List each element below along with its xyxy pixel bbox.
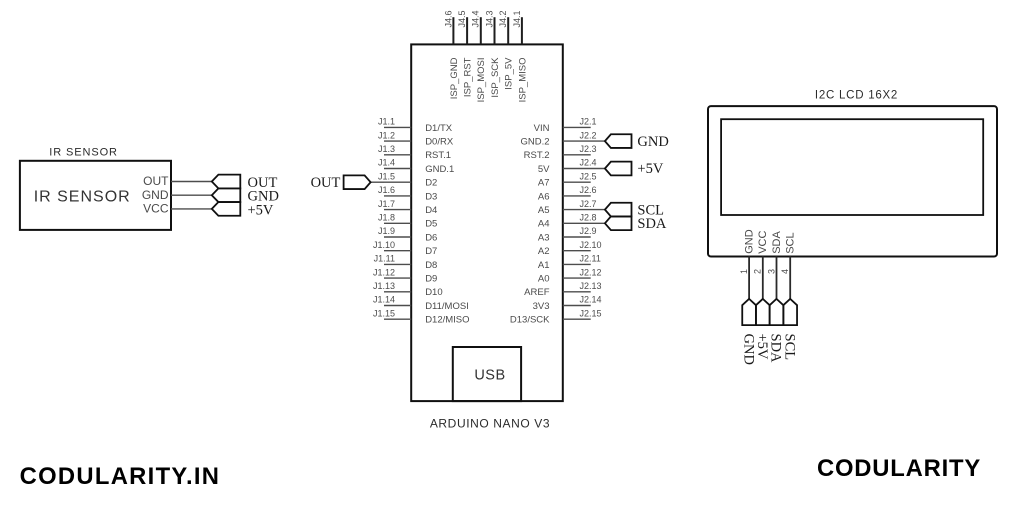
pin J2.15 (D13/SCK) right: [510, 308, 602, 325]
svg-text:GND: GND: [744, 229, 756, 254]
svg-text:2: 2: [753, 269, 763, 274]
svg-text:J1.15: J1.15: [373, 308, 395, 318]
svg-text:D7: D7: [425, 246, 437, 257]
component ARDUINO NANO V3 box: [411, 44, 563, 401]
pin J1.11 (D8) left: [374, 254, 438, 271]
pin J4.2 (ISP_5V) top: [498, 10, 514, 89]
svg-text:ARDUINO NANO V3: ARDUINO NANO V3: [430, 417, 550, 431]
svg-text:SDA: SDA: [771, 231, 783, 254]
pin J2.1 (VIN) right: [534, 117, 597, 134]
pin J2.7 (A5) right: [538, 199, 605, 216]
svg-text:J1.3: J1.3: [378, 144, 395, 154]
wire IR GND to connector: [171, 194, 212, 196]
svg-text:D13/SCK: D13/SCK: [510, 315, 550, 326]
svg-text:SDA: SDA: [637, 216, 667, 232]
svg-text:VIN: VIN: [534, 123, 550, 134]
svg-text:J4.2: J4.2: [498, 10, 508, 27]
svg-text:ISP_GND: ISP_GND: [449, 57, 460, 99]
svg-text:3: 3: [766, 269, 776, 274]
pin 3 (SDA) of LCD: [766, 231, 783, 299]
svg-text:J1.5: J1.5: [378, 171, 395, 181]
net flag OUT (IR connector): [212, 175, 278, 191]
pin J1.7 (D4) left: [378, 199, 437, 216]
pin J4.1 (ISP_MISO) top: [512, 10, 529, 102]
net flag GND (IR connector): [212, 188, 279, 204]
svg-text:D12/MISO: D12/MISO: [425, 315, 469, 326]
pin J2.13 (AREF) right: [524, 281, 601, 298]
svg-text:ISP_MOSI: ISP_MOSI: [476, 58, 487, 103]
svg-text:3V3: 3V3: [533, 301, 550, 312]
svg-text:CODULARITY.IN: CODULARITY.IN: [20, 463, 221, 490]
svg-text:A4: A4: [538, 219, 550, 230]
pin VCC of IR sensor: [143, 202, 169, 216]
pin J2.8 (A4) right: [538, 213, 605, 230]
pin J2.5 (A7) right: [538, 171, 597, 188]
pin J2.10 (A2) right: [538, 240, 602, 257]
net flag SCL (LCD pin 4): [781, 299, 797, 360]
svg-text:GND: GND: [740, 334, 756, 365]
svg-text:D8: D8: [425, 260, 437, 271]
pin J2.9 (A3) right: [538, 226, 597, 243]
svg-text:AREF: AREF: [524, 287, 550, 298]
svg-text:A1: A1: [538, 260, 550, 271]
svg-text:J2.14: J2.14: [580, 295, 602, 305]
svg-text:J2.8: J2.8: [580, 213, 597, 223]
svg-text:VCC: VCC: [757, 231, 769, 254]
net flag +5V (LCD pin 2): [754, 299, 770, 360]
pin J2.3 (RST.2) right: [524, 144, 597, 161]
svg-text:GND.2: GND.2: [520, 137, 549, 148]
net flag GND (Arduino J2.2): [605, 134, 669, 150]
svg-text:J4.5: J4.5: [457, 10, 467, 27]
svg-text:J1.4: J1.4: [378, 158, 395, 168]
svg-text:J4.1: J4.1: [512, 10, 522, 27]
component I2C LCD 16X2 box: [708, 106, 997, 256]
svg-text:OUT: OUT: [143, 174, 169, 188]
svg-text:A5: A5: [538, 205, 550, 216]
svg-text:J1.10: J1.10: [373, 240, 395, 250]
svg-text:J1.14: J1.14: [373, 295, 395, 305]
svg-text:GND.1: GND.1: [425, 164, 454, 175]
pin J1.9 (D6) left: [378, 226, 437, 243]
svg-text:J2.5: J2.5: [580, 171, 597, 181]
net flag SCL (Arduino J2.7): [605, 202, 664, 218]
svg-text:ISP_SCK: ISP_SCK: [490, 57, 501, 98]
svg-text:J4.4: J4.4: [471, 10, 481, 27]
svg-text:CODULARITY: CODULARITY: [817, 455, 981, 482]
svg-text:SDA: SDA: [768, 334, 784, 364]
svg-text:A2: A2: [538, 246, 550, 257]
svg-text:IR SENSOR: IR SENSOR: [34, 188, 131, 205]
net flag SDA (LCD pin 3): [768, 299, 784, 363]
svg-text:J2.1: J2.1: [580, 117, 597, 127]
pin OUT of IR sensor: [143, 174, 169, 188]
pin J2.14 (3V3) right: [533, 295, 602, 312]
wire OUT flag to pin J1.5: [371, 181, 384, 183]
svg-text:GND: GND: [142, 188, 169, 202]
svg-text:J2.2: J2.2: [580, 130, 597, 140]
svg-text:D0/RX: D0/RX: [425, 137, 454, 148]
pin J1.6 (D3) left: [378, 185, 437, 202]
pin 2 (VCC) of LCD: [753, 231, 770, 299]
pin J1.5 (D2) left: [378, 171, 437, 188]
svg-text:J2.12: J2.12: [580, 267, 602, 277]
svg-text:J1.7: J1.7: [378, 199, 395, 209]
svg-text:4: 4: [780, 269, 790, 274]
svg-text:1: 1: [739, 269, 749, 274]
pin J1.8 (D5) left: [378, 213, 437, 230]
pin J4.5 (ISP_RST) top: [457, 10, 474, 97]
svg-text:RST.2: RST.2: [524, 150, 550, 161]
net flag OUT (to Arduino D2): [311, 175, 371, 191]
svg-text:A6: A6: [538, 191, 550, 202]
pin J2.4 (5V) right: [538, 158, 605, 175]
net flag GND (LCD pin 1): [740, 299, 756, 365]
LCD screen inner rectangle: [721, 119, 983, 215]
pin 1 (GND) of LCD: [739, 229, 756, 299]
svg-text:J1.6: J1.6: [378, 185, 395, 195]
svg-text:J1.12: J1.12: [373, 267, 395, 277]
svg-text:J1.11: J1.11: [374, 254, 395, 264]
svg-text:D9: D9: [425, 274, 437, 285]
svg-text:A3: A3: [538, 232, 550, 243]
svg-text:IR SENSOR: IR SENSOR: [49, 146, 118, 158]
pin J1.4 (GND.1) left: [378, 158, 454, 175]
svg-text:GND: GND: [637, 134, 668, 150]
svg-text:D1/TX: D1/TX: [425, 123, 453, 134]
svg-text:A7: A7: [538, 178, 550, 189]
svg-text:I2C LCD 16X2: I2C LCD 16X2: [815, 90, 898, 102]
svg-text:J2.10: J2.10: [580, 240, 602, 250]
svg-text:J2.15: J2.15: [580, 308, 602, 318]
svg-text:ISP_5V: ISP_5V: [504, 57, 515, 90]
pin 4 (SCL) of LCD: [780, 232, 797, 299]
svg-text:J2.13: J2.13: [580, 281, 602, 291]
pin J1.12 (D9) left: [373, 267, 437, 284]
pin J1.13 (D10) left: [373, 281, 443, 298]
component IR SENSOR box: [20, 161, 171, 230]
svg-text:ISP_MISO: ISP_MISO: [517, 58, 528, 103]
svg-text:+5V: +5V: [754, 334, 770, 360]
pin J2.12 (A0) right: [538, 267, 602, 284]
pin J4.6 (ISP_GND) top: [443, 10, 460, 99]
svg-text:ISP_RST: ISP_RST: [463, 57, 474, 97]
pin GND of IR sensor: [142, 188, 169, 202]
pin J2.6 (A6) right: [538, 185, 597, 202]
svg-text:D5: D5: [425, 219, 437, 230]
svg-text:J2.11: J2.11: [580, 254, 601, 264]
pin J1.2 (D0/RX) left: [378, 130, 454, 147]
svg-text:+5V: +5V: [637, 161, 663, 177]
svg-text:D11/MOSI: D11/MOSI: [425, 301, 469, 312]
net flag SDA (Arduino J2.8): [605, 216, 667, 232]
svg-text:J2.9: J2.9: [580, 226, 597, 236]
svg-text:A0: A0: [538, 274, 550, 285]
svg-text:J4.6: J4.6: [443, 10, 453, 27]
svg-text:D3: D3: [425, 191, 437, 202]
wire IR OUT to connector: [171, 181, 212, 183]
svg-text:J2.4: J2.4: [580, 158, 597, 168]
pin J1.10 (D7) left: [373, 240, 437, 257]
svg-text:D2: D2: [425, 178, 437, 189]
svg-text:SCL: SCL: [781, 334, 797, 361]
svg-text:J1.1: J1.1: [378, 117, 395, 127]
net flag +5V (Arduino J2.4): [605, 161, 664, 177]
pin J1.1 (D1/TX) left: [378, 117, 453, 134]
svg-text:J2.7: J2.7: [580, 199, 597, 209]
svg-text:D6: D6: [425, 232, 437, 243]
svg-text:5V: 5V: [538, 164, 550, 175]
svg-text:J4.3: J4.3: [484, 10, 494, 27]
svg-text:J1.8: J1.8: [378, 213, 395, 223]
svg-text:J1.2: J1.2: [378, 130, 395, 140]
svg-text:VCC: VCC: [143, 202, 169, 216]
pin J1.14 (D11/MOSI) left: [373, 295, 469, 312]
svg-text:RST.1: RST.1: [425, 150, 451, 161]
svg-text:D10: D10: [425, 287, 442, 298]
pin J2.11 (A1) right: [538, 254, 601, 271]
svg-text:J1.13: J1.13: [373, 281, 395, 291]
pin J1.15 (D12/MISO) left: [373, 308, 470, 325]
svg-text:J1.9: J1.9: [378, 226, 395, 236]
svg-text:SCL: SCL: [785, 232, 797, 253]
svg-text:J2.6: J2.6: [580, 185, 597, 195]
svg-text:D4: D4: [425, 205, 437, 216]
pin J4.4 (ISP_MOSI) top: [471, 10, 488, 102]
pin J4.3 (ISP_SCK) top: [484, 10, 501, 97]
svg-text:USB: USB: [474, 367, 505, 383]
svg-text:OUT: OUT: [311, 175, 341, 191]
pin J2.2 (GND.2) right: [520, 130, 604, 147]
pin J1.3 (RST.1) left: [378, 144, 451, 161]
svg-text:J2.3: J2.3: [580, 144, 597, 154]
USB connector box: [453, 347, 521, 401]
svg-text:+5V: +5V: [248, 202, 274, 218]
wire IR VCC to connector: [171, 208, 212, 210]
net flag +5V (IR connector): [212, 202, 274, 218]
